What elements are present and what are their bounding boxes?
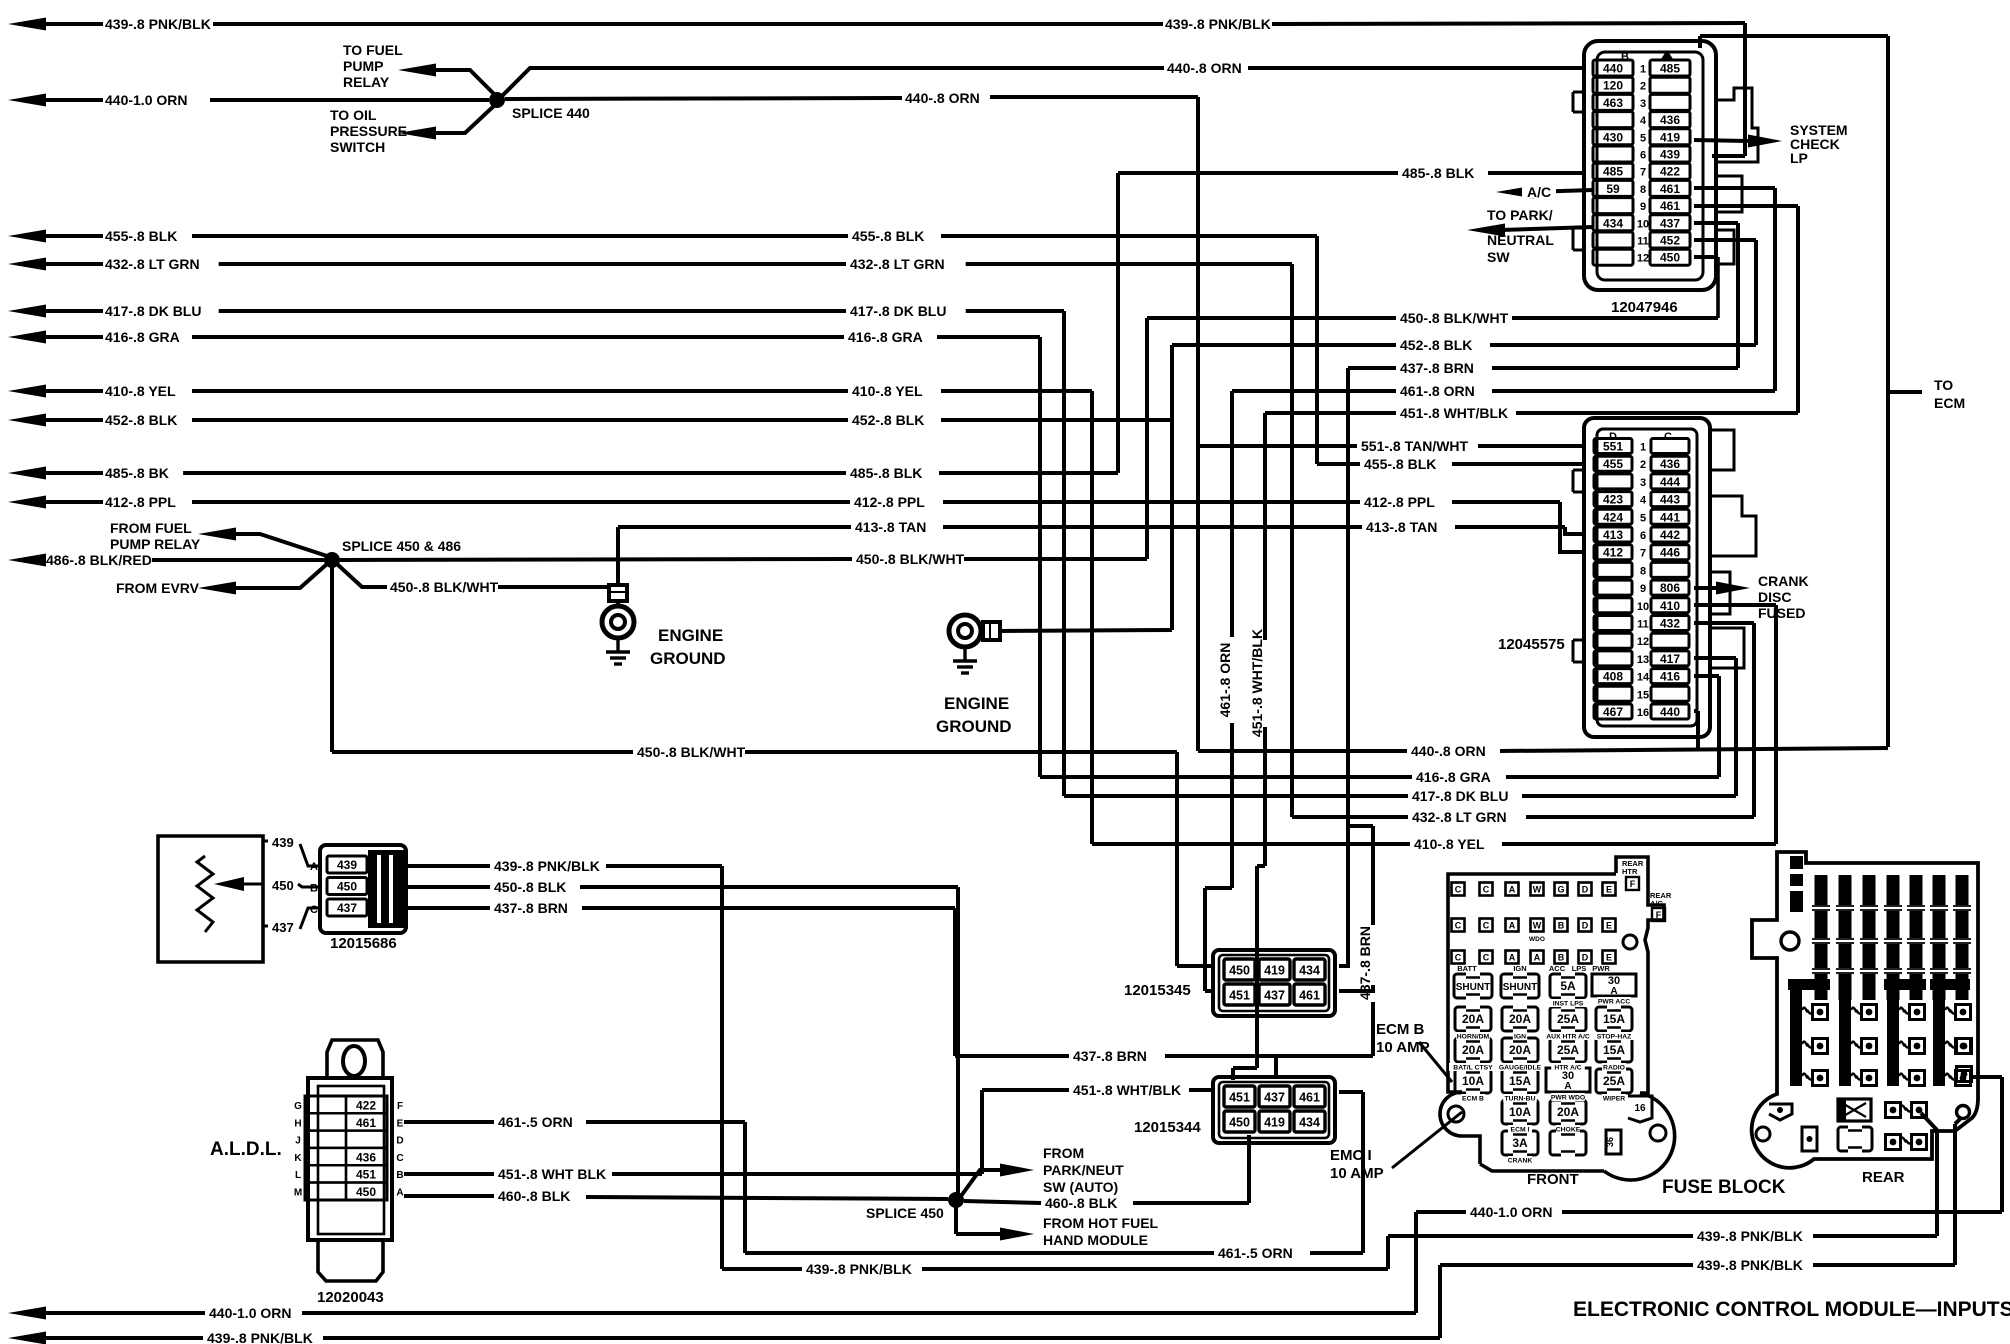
text TO PARK/NEUTRAL SW (1484, 207, 1552, 221)
svg-text:3: 3 (1640, 98, 1646, 110)
wire 437-.8 BRN row y1056 to connector 12015344 pin 437 (955, 1054, 1069, 1058)
connector 12015344 (1213, 1077, 1335, 1143)
rear block square terminals with squiggles (1813, 1005, 1828, 1020)
svg-text:WIPER: WIPER (1603, 1096, 1625, 1103)
svg-text:ECM B: ECM B (1462, 1096, 1484, 1103)
svg-text:A: A (1509, 953, 1516, 963)
wire 450 vertical x1177 down into connector 12015345 (1175, 752, 1179, 966)
svg-text:461: 461 (1299, 989, 1320, 1003)
svg-text:451: 451 (1229, 989, 1250, 1003)
svg-text:437: 437 (1264, 1091, 1285, 1105)
svg-text:410-.8 YEL: 410-.8 YEL (852, 383, 923, 399)
svg-text:FROM: FROM (1043, 1145, 1084, 1161)
svg-text:450-.8 BLK: 450-.8 BLK (494, 879, 566, 895)
12015345 pin 419 (1259, 959, 1290, 980)
svg-text:K: K (294, 1153, 302, 1164)
wire 417-.8 DK BLU bottom row to pin C13 (1694, 656, 1736, 660)
wire 432 vertical x1292 down to y817 (1290, 264, 1294, 817)
svg-text:417: 417 (1660, 652, 1680, 666)
wire 451-.8 WHT BLK from ALDL pin B (404, 1172, 494, 1176)
engine ground 2 ring terminal and ground symbol (949, 615, 981, 647)
wire SYSTEM CHECK LP arrow from pin C5 (1694, 140, 1748, 141)
wire 440-.8 ORN from splice right (row y98) (505, 98, 902, 99)
svg-text:450-.8 BLK/WHT: 450-.8 BLK/WHT (856, 551, 965, 567)
svg-text:GROUND: GROUND (936, 717, 1012, 736)
svg-text:439-.8 PNK/BLK: 439-.8 PNK/BLK (494, 858, 600, 874)
connector 12045575 pin 12 row (1594, 633, 1632, 648)
fuse 20A HORN/DM (1455, 1007, 1491, 1031)
svg-text:TO FUEL: TO FUEL (343, 42, 403, 58)
svg-text:422: 422 (1660, 165, 1680, 179)
svg-text:A: A (396, 1188, 403, 1199)
wire 485-.8 BLK top row to connector pin B7 (1118, 171, 1398, 175)
connector 12047946 pin 6 row (1593, 146, 1633, 162)
connector 12047946 pin 4 row (1593, 112, 1633, 128)
rear block blank H fuse (1838, 1127, 1872, 1151)
ALDL pin C 436 (305, 1148, 346, 1165)
svg-text:423: 423 (1603, 493, 1623, 507)
fuse SHUNT (IGN) (1501, 974, 1539, 998)
svg-text:CHOKE: CHOKE (1556, 1127, 1581, 1134)
connector 12045575 pin 9 row (1594, 580, 1632, 595)
wire 416-.8 GRA bottom row to pin C14 (1694, 674, 1719, 678)
svg-text:C: C (1483, 953, 1490, 963)
connector 12015686 body (320, 845, 406, 933)
svg-text:440-.8 ORN: 440-.8 ORN (905, 90, 980, 106)
connector 12047946 pin 11 row (1593, 232, 1633, 248)
terminal 16 box (1628, 1096, 1652, 1122)
wire 451 vertical x982 up to row y1090 (980, 1090, 984, 1174)
svg-text:25A: 25A (1557, 1012, 1579, 1026)
svg-text:15A: 15A (1603, 1012, 1625, 1026)
connector 12045575 pin 1 row (1594, 439, 1632, 454)
svg-text:SPLICE 440: SPLICE 440 (512, 105, 590, 121)
connector 12045575 pin 8 row (1594, 562, 1632, 577)
svg-text:3A: 3A (1512, 1136, 1528, 1150)
svg-text:461: 461 (356, 1116, 376, 1130)
svg-text:C: C (1455, 885, 1462, 895)
connector 12045575 right side keying profile (1710, 430, 1734, 470)
fuse 3A CRANK (1502, 1131, 1538, 1155)
svg-text:BAT/L CTSY: BAT/L CTSY (1453, 1065, 1493, 1072)
wire 440 vertical x1416 down to bottom row (1414, 1212, 1418, 1313)
svg-text:RELAY: RELAY (343, 74, 390, 90)
svg-text:FUSED: FUSED (1758, 605, 1805, 621)
svg-text:W: W (1533, 921, 1542, 931)
rear block squiggle terminal pair upper (1886, 1103, 1901, 1118)
wire 460-.8 BLK from ALDL pin A to splice 450 (404, 1194, 494, 1198)
ALDL pin B 451 (305, 1165, 346, 1182)
wire 412-.8 PPL long row (8, 496, 46, 509)
svg-text:HTR A/C: HTR A/C (1554, 1065, 1581, 1072)
wire 416-.8 GRA long row (8, 331, 46, 344)
wire 486-.8 BLK/RED row with left arrow (8, 554, 46, 567)
fuse 25A HTR A/C (1550, 1038, 1586, 1062)
ALDL pin F 422 (305, 1096, 346, 1113)
wire 440-.8 ORN from splice 440 up to row y68 to connector pin B1 (502, 68, 1164, 96)
svg-text:440-1.0 ORN: 440-1.0 ORN (1470, 1204, 1552, 1220)
terminal 36 box vertical (1606, 1130, 1621, 1154)
wire 432-.8 LT GRN bottom row to pin C11 (1694, 621, 1754, 625)
svg-text:SHUNT: SHUNT (1503, 982, 1537, 993)
svg-text:HORN/DM: HORN/DM (1457, 1034, 1490, 1041)
wire 432-.8 LT GRN long row (8, 258, 46, 271)
rear block pentagon terminal (1769, 1104, 1792, 1120)
svg-text:GROUND: GROUND (650, 649, 726, 668)
wire 417 vertical x1064 down to y796 (1062, 311, 1066, 796)
connector 12047946 pin 10 row (1593, 215, 1633, 231)
svg-text:25A: 25A (1603, 1074, 1625, 1088)
wire 461 from connector 12015344 right side down to row y1253 (1339, 1090, 1363, 1094)
svg-text:1: 1 (1640, 442, 1646, 454)
svg-text:439: 439 (272, 835, 294, 850)
svg-text:432-.8 LT GRN: 432-.8 LT GRN (105, 256, 200, 272)
svg-text:TO OIL: TO OIL (330, 107, 377, 123)
fuse 20A IGN (1502, 1007, 1538, 1031)
ALDL pin A 450 (305, 1183, 346, 1200)
svg-text:5: 5 (1640, 512, 1646, 524)
connector 12047946 pin 7 row (1593, 163, 1633, 179)
wire CRANK DISC FUSED arrow from pin C9 (1694, 586, 1716, 590)
wire 455 vertical x1317 down to y464 (1315, 236, 1319, 464)
svg-text:463: 463 (1603, 96, 1623, 110)
svg-text:PWR: PWR (1592, 964, 1610, 973)
wire 410 vertical x1092 down to y844 (1090, 391, 1094, 844)
wire 450-.8 BLK/WHT from splice to engine ground 1 (337, 564, 387, 587)
fuse 25A AUX HTR A/C (1550, 1007, 1586, 1031)
svg-text:439-.8 PNK/BLK: 439-.8 PNK/BLK (1697, 1257, 1803, 1273)
svg-text:486-.8 BLK/RED: 486-.8 BLK/RED (46, 552, 152, 568)
svg-text:451: 451 (356, 1168, 376, 1182)
svg-text:437: 437 (337, 901, 357, 915)
ALDL connector 12020043 top mounting tab (327, 1040, 383, 1078)
svg-text:450: 450 (337, 880, 357, 894)
svg-text:C: C (1483, 921, 1490, 931)
svg-text:437-.8 BRN: 437-.8 BRN (1073, 1048, 1147, 1064)
svg-text:419: 419 (1264, 964, 1285, 978)
svg-text:HAND MODULE: HAND MODULE (1043, 1232, 1148, 1248)
svg-text:419: 419 (1264, 1116, 1285, 1130)
svg-text:417-.8 DK BLU: 417-.8 DK BLU (1412, 788, 1508, 804)
svg-text:434: 434 (1603, 216, 1623, 230)
svg-text:ECM I: ECM I (1511, 1127, 1530, 1134)
svg-text:12047946: 12047946 (1611, 299, 1678, 316)
svg-text:G: G (294, 1101, 302, 1112)
svg-text:TO PARK/: TO PARK/ (1487, 207, 1553, 223)
connector 12045575 pin 6 row (1594, 527, 1632, 542)
svg-text:PUMP: PUMP (343, 58, 383, 74)
connector 12047946 pin 9 row (1593, 198, 1633, 214)
svg-text:16: 16 (1634, 1103, 1646, 1114)
svg-text:C: C (396, 1153, 403, 1164)
12015345 pin 450 (1224, 959, 1255, 980)
svg-text:D: D (1582, 885, 1589, 895)
svg-text:461-.5 ORN: 461-.5 ORN (1218, 1245, 1293, 1261)
wire A/C arrow from pin B8 (1496, 186, 1534, 199)
svg-text:461-.5 ORN: 461-.5 ORN (498, 1114, 573, 1130)
svg-text:WDO: WDO (1529, 936, 1545, 943)
connector 12047946 pin 3 row (1593, 94, 1633, 110)
svg-text:HTR: HTR (1622, 867, 1638, 876)
svg-text:452: 452 (1660, 234, 1680, 248)
svg-text:A.L.D.L.: A.L.D.L. (210, 1139, 282, 1160)
12015345 pin 434 (1294, 959, 1325, 980)
fuse 15A TURN-BU (1502, 1069, 1538, 1093)
wire 437 vertical x1348 from row y368 down to connector 12015345 right side (1346, 368, 1350, 826)
rear block circle terminal (439 feed) (1957, 1106, 1970, 1119)
connector 12015686 pin A 439 (327, 856, 367, 873)
connector 12015686 pin B 450 (327, 878, 367, 895)
svg-text:10: 10 (1637, 218, 1649, 230)
12015344 pin 419 (1259, 1111, 1290, 1132)
svg-text:F: F (397, 1101, 403, 1112)
svg-text:ECM B: ECM B (1376, 1021, 1425, 1038)
svg-text:450-.8 BLK/WHT: 450-.8 BLK/WHT (390, 579, 499, 595)
svg-text:439: 439 (337, 858, 357, 872)
connector 12045575 pin 7 row (1594, 545, 1632, 560)
svg-text:437-.8 BRN: 437-.8 BRN (494, 900, 568, 916)
svg-text:CRANK: CRANK (1758, 573, 1809, 589)
svg-text:BATT: BATT (1457, 964, 1477, 973)
wire 440-1.0 ORN row with left arrow (8, 94, 46, 107)
rear block lower strips (columns 1,3,5,7) (1790, 990, 1802, 1086)
svg-text:ELECTRONIC CONTROL MODULE—INPU: ELECTRONIC CONTROL MODULE—INPUTS (1573, 1298, 2010, 1321)
svg-text:417-.8 DK BLU: 417-.8 DK BLU (850, 303, 946, 319)
svg-text:A: A (1610, 986, 1617, 997)
svg-text:D: D (396, 1136, 403, 1147)
wire 439 vertical x722 down to bottom row (720, 866, 724, 1269)
svg-text:EMC I: EMC I (1330, 1147, 1372, 1164)
svg-text:413: 413 (1603, 528, 1623, 542)
svg-text:PARK/NEUT: PARK/NEUT (1043, 1162, 1124, 1178)
wire 451-.8 WHT/BLK vertical (rotated label) down to connector 12015344 (1263, 413, 1267, 640)
svg-text:461: 461 (1299, 1091, 1320, 1105)
svg-text:59: 59 (1606, 182, 1620, 196)
svg-text:10A: 10A (1462, 1074, 1484, 1088)
wire 455-.8 BLK long row (8, 230, 46, 243)
12015345 pin 437 (1259, 984, 1290, 1005)
svg-text:20A: 20A (1557, 1105, 1579, 1119)
svg-text:4: 4 (1640, 115, 1647, 127)
svg-text:443: 443 (1660, 493, 1680, 507)
svg-text:439-.8 PNK/BLK: 439-.8 PNK/BLK (1697, 1228, 1803, 1244)
connector 12045575 pin 5 row (1594, 509, 1632, 524)
svg-text:1: 1 (1640, 64, 1646, 76)
svg-text:B: B (1558, 953, 1565, 963)
svg-text:5: 5 (1640, 132, 1646, 144)
svg-text:A/C: A/C (1650, 899, 1664, 908)
wire 551-.8 TAN/WHT row to connector 12045575 pin D1 (1199, 444, 1357, 448)
wire 440 vertical right edge up to rear block terminal (2000, 1077, 2004, 1212)
wire 485-.8 BK long row (8, 467, 46, 480)
wire 413 jog into connector 12045575 pin D6 (1565, 527, 1585, 534)
fuse block front mounting hole left (1448, 1106, 1464, 1122)
svg-text:7: 7 (1640, 548, 1646, 560)
svg-text:416-.8 GRA: 416-.8 GRA (848, 329, 923, 345)
svg-text:SW (AUTO): SW (AUTO) (1043, 1179, 1118, 1195)
svg-text:11: 11 (1637, 619, 1649, 631)
fuse block front inner circle right (1650, 1125, 1666, 1141)
connector 12047946 pin 8 row (1593, 180, 1633, 196)
fuse 10A ECM B (1455, 1069, 1491, 1093)
fuse blank (1550, 1131, 1586, 1155)
svg-text:C: C (310, 904, 318, 916)
svg-text:461: 461 (1660, 182, 1680, 196)
svg-text:7: 7 (1640, 167, 1646, 179)
svg-text:437: 437 (1264, 989, 1285, 1003)
svg-text:485-.8 BLK: 485-.8 BLK (850, 465, 922, 481)
wires sensor to connector 12015686 pins (300, 844, 322, 866)
svg-text:485-.8 BK: 485-.8 BK (105, 465, 169, 481)
connector 12047946 right side keying profile (1716, 88, 1758, 162)
wire 440 vertical x1198 down to row y751 (1196, 97, 1200, 751)
connector 12045575 pin 14 row (1594, 669, 1632, 684)
ALDL pin E 461 (305, 1113, 346, 1130)
wire from connector top to ECM vertical (1700, 34, 1888, 38)
svg-text:442: 442 (1660, 528, 1680, 542)
svg-text:450: 450 (1229, 964, 1250, 978)
svg-text:452-.8 BLK: 452-.8 BLK (105, 412, 177, 428)
rear block squiggle terminal pair lower (1886, 1135, 1901, 1150)
wire 450-.8 BLK/WHT bottom row (332, 750, 633, 754)
wire 451-.8 WHT/BLK right row to connector pin C9 (1265, 411, 1396, 415)
svg-text:ACC: ACC (1549, 964, 1566, 973)
svg-text:B: B (396, 1170, 403, 1181)
svg-text:437: 437 (272, 920, 294, 935)
fuse 20A GAUGE/IDLE (1502, 1038, 1538, 1062)
label A/C (1522, 180, 1556, 198)
svg-text:413-.8 TAN: 413-.8 TAN (855, 519, 926, 535)
svg-text:551-.8 TAN/WHT: 551-.8 TAN/WHT (1361, 438, 1469, 454)
svg-text:M: M (294, 1188, 302, 1199)
svg-text:439-.8 PNK/BLK: 439-.8 PNK/BLK (105, 16, 211, 32)
wire 450 vertical x958 down to splice 450 (956, 887, 960, 1199)
connector 12045575 pin 11 row (1594, 616, 1632, 631)
svg-text:PRESSURE: PRESSURE (330, 123, 407, 139)
wire 450 vertical x1147 up to row y318 (1145, 318, 1149, 559)
svg-text:8: 8 (1640, 565, 1646, 577)
arrow into resistor (450 wiper) (214, 877, 244, 891)
wire 440-1.0 ORN bottom-left row with arrow (8, 1307, 46, 1320)
svg-text:C: C (1483, 885, 1490, 895)
rear block fuse strip column 1 (short, in tab) (1790, 856, 1803, 912)
svg-text:20A: 20A (1509, 1043, 1531, 1057)
svg-text:455: 455 (1603, 457, 1623, 471)
svg-text:F: F (1630, 879, 1636, 889)
12015344 pin 437 (1259, 1086, 1290, 1107)
svg-text:12015345: 12015345 (1124, 982, 1191, 999)
svg-text:A/C: A/C (1527, 184, 1551, 200)
svg-text:434: 434 (1299, 964, 1320, 978)
svg-text:12045575: 12045575 (1498, 636, 1565, 653)
svg-text:REAR: REAR (1862, 1169, 1905, 1186)
svg-text:460-.8 BLK: 460-.8 BLK (1045, 1195, 1117, 1211)
ALDL pin grid (305, 1096, 387, 1200)
svg-text:10 AMP: 10 AMP (1330, 1165, 1384, 1182)
sensor box with resistor element (158, 836, 263, 962)
svg-text:485: 485 (1603, 165, 1623, 179)
connector 12045575 pin 10 row (1594, 598, 1632, 613)
svg-text:15: 15 (1637, 689, 1649, 701)
connector 12047946 pin 12 row (1593, 249, 1633, 265)
fuse 5A INST LPS (1550, 974, 1586, 998)
svg-text:467: 467 (1603, 705, 1623, 719)
svg-text:9: 9 (1640, 201, 1646, 213)
12015345 pin 451 (1224, 984, 1255, 1005)
svg-text:12: 12 (1637, 253, 1649, 265)
engine ground 1 ring terminal and ground symbol (602, 606, 634, 638)
sensor terminal stubs 439/450/437 (263, 840, 268, 843)
svg-text:SW: SW (1487, 249, 1510, 265)
wire 410-.8 YEL bottom row to pin C10 (1694, 603, 1776, 607)
svg-text:FROM EVRV: FROM EVRV (116, 580, 200, 596)
svg-text:A: A (1509, 885, 1516, 895)
svg-text:FUSE BLOCK: FUSE BLOCK (1662, 1177, 1786, 1198)
svg-text:439-.8 PNK/BLK: 439-.8 PNK/BLK (806, 1261, 912, 1277)
svg-text:12015344: 12015344 (1134, 1119, 1201, 1136)
svg-text:436: 436 (1660, 457, 1680, 471)
svg-text:STOP-HAZ: STOP-HAZ (1597, 1034, 1632, 1041)
fuse 30A PWR WDO (1546, 1068, 1590, 1092)
svg-text:485: 485 (1660, 62, 1680, 76)
rear block small hole (1756, 1127, 1770, 1141)
fuse block front outline (1616, 857, 1664, 1093)
wire 439-.8 PNK/BLK top row with left arrow (8, 18, 46, 31)
ALDL connector 12020043 body (308, 1078, 392, 1240)
svg-text:E: E (1606, 921, 1612, 931)
fuse sub-labels (1549, 999, 1587, 1007)
wire 450-.8 BLK/WHT mid row from splice to vertical x1147 (340, 559, 852, 560)
svg-text:8: 8 (1640, 184, 1646, 196)
svg-text:2: 2 (1640, 81, 1646, 93)
wire 450-.8 BLK/WHT right row to connector pin C12 (1147, 316, 1396, 320)
svg-text:432-.8 LT GRN: 432-.8 LT GRN (850, 256, 945, 272)
svg-text:417-.8 DK BLU: 417-.8 DK BLU (105, 303, 201, 319)
12015344 pin 450 (1224, 1111, 1255, 1132)
svg-text:ENGINE: ENGINE (658, 626, 723, 645)
svg-text:436: 436 (356, 1150, 376, 1164)
wire 413 vertical down to engine ground 1 clamp (616, 527, 620, 586)
svg-text:485-.8 BLK: 485-.8 BLK (1402, 165, 1474, 181)
svg-text:440-1.0 ORN: 440-1.0 ORN (209, 1305, 291, 1321)
rear block right-edge terminal upper (1957, 1039, 1972, 1054)
resistor zigzag inside sensor box (197, 856, 213, 932)
wire 437-.8 BRN right row to connector pin C10 (1348, 366, 1396, 370)
svg-text:PUMP RELAY: PUMP RELAY (110, 536, 201, 552)
svg-text:D: D (1582, 953, 1589, 963)
12015344 pin 434 (1294, 1111, 1325, 1132)
svg-text:424: 424 (1603, 510, 1623, 524)
svg-text:412-.8 PPL: 412-.8 PPL (1364, 494, 1435, 510)
wire 450-.8 BLK from 12015686 pin B (404, 885, 490, 889)
wire splice 440 to TO OIL PRESSURE SWITCH arrow (428, 103, 497, 133)
connector 12045575 pin 4 row (1594, 492, 1632, 507)
svg-text:437-.8 BRN: 437-.8 BRN (1357, 926, 1373, 1000)
connector 12047946 pin 2 row (1593, 77, 1633, 93)
svg-text:439-.8 PNK/BLK: 439-.8 PNK/BLK (1165, 16, 1271, 32)
connector 12045575 pin 3 row (1594, 474, 1632, 489)
svg-text:NEUTRAL: NEUTRAL (1487, 232, 1554, 248)
wire splice 450 to FROM PARK/NEUT SW arrow (961, 1170, 1000, 1196)
wire ECM B pointer to fuse block (1419, 1042, 1452, 1082)
wire 439 vertical x1388 up to row y1236 (1386, 1236, 1390, 1269)
wire 439 vertical drop to connector 12047946 pin C6 (1743, 23, 1747, 156)
wire 437 vertical x955 down to row y1056 (953, 908, 957, 1056)
connector 12045575 pin 16 row (1594, 704, 1632, 719)
svg-text:410: 410 (1660, 599, 1680, 613)
wire 439-.8 PNK/BLK row y1269 (722, 1267, 802, 1271)
svg-text:455-.8 BLK: 455-.8 BLK (852, 228, 924, 244)
